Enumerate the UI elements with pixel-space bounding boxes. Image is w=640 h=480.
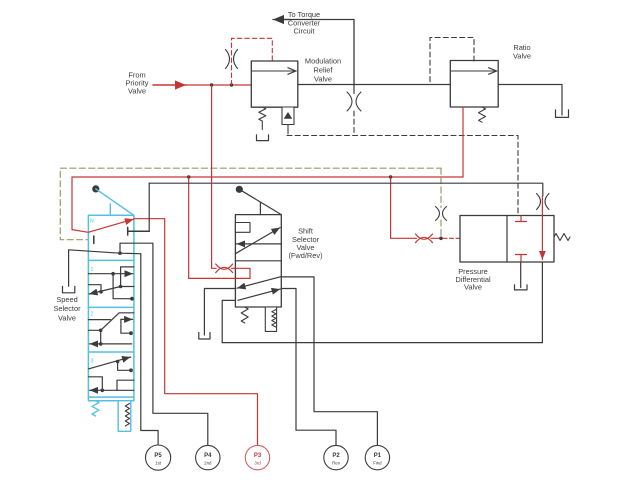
wire: clutch signal line (y=183) — [149, 183, 543, 196]
label: Shift Selector Valve (Fwd/Rev) — [288, 227, 322, 261]
svg-text:Valve: Valve — [128, 87, 146, 96]
wire: to torque converter circuit — [273, 20, 354, 86]
spring: speed valve damper coil (black) — [125, 404, 129, 427]
node: section 1 S-link junction — [119, 285, 123, 289]
node: junction of olive pilot and red feed — [439, 237, 443, 241]
wire: red distribution header (y=177) — [72, 176, 463, 178]
wire: clutch return header (y=343.5) — [222, 342, 542, 344]
check valve: modulation relief valve — [282, 107, 294, 125]
svg-text:Selector: Selector — [53, 304, 81, 313]
section 1 supply arrow — [88, 273, 133, 275]
svg-text:Relief: Relief — [314, 65, 334, 74]
svg-text:3rd: 3rd — [254, 461, 261, 466]
svg-text:P3: P3 — [254, 453, 262, 459]
red pilot loop inside shift valve — [189, 268, 250, 278]
node: supply branch to modulation pilot (x=231.5) — [230, 83, 233, 86]
svg-text:Valve: Valve — [314, 74, 332, 83]
orifice on olive pilot line — [436, 207, 447, 221]
section 2 supply line — [88, 319, 110, 321]
speed selector valve damper box (cyan) — [118, 401, 131, 432]
wire: tank line through section N — [69, 250, 141, 286]
spring: modulation relief valve — [259, 107, 266, 130]
wire: ratio valve outlet to tank — [498, 85, 562, 116]
svg-text:Rev: Rev — [332, 461, 341, 466]
pressure tap P3 (3rd, red) — [245, 445, 269, 469]
valve U2: ratio valve body — [450, 61, 498, 108]
shift valve lower section arrow to outlet — [238, 289, 280, 300]
pressure tap P1 (Fwd) — [365, 445, 389, 469]
svg-text:2: 2 — [91, 312, 94, 318]
node: section 3 hook junction — [101, 389, 105, 393]
tank: ratio valve drain — [556, 110, 569, 118]
wire: branch to P4 (2nd) — [120, 243, 208, 445]
section 2 drop link — [100, 330, 102, 344]
wire: olive dashed pilot network — [60, 168, 441, 240]
svg-text:3: 3 — [91, 359, 94, 365]
pressure tap P4 (2nd) — [196, 445, 220, 469]
tank: modulation relief valve drain — [257, 135, 269, 141]
wire: red branch down to shift valve lower pilot — [188, 177, 190, 278]
wire: shift valve lower left port loop — [222, 300, 235, 342]
valve U3: shift selector valve body — [235, 215, 281, 307]
shift selector valve damper box — [265, 307, 276, 331]
node: section 2 drop junction — [99, 342, 103, 346]
svg-text:Valve: Valve — [513, 51, 531, 60]
spring: shift valve damper coil — [272, 310, 276, 328]
wire: red dashed pilot loop to modulation relief valve top — [232, 38, 273, 85]
section 3 left hook — [88, 377, 102, 391]
section 3 right hook — [117, 380, 134, 390]
svg-text:Modulation: Modulation — [305, 56, 341, 65]
modulation relief valve internal flow arrow — [252, 70, 296, 72]
node: supply branch to shift selector (x=212) — [210, 83, 213, 86]
wire: red supply from priority valve — [153, 84, 251, 86]
wire: ratio valve pilot (black dashed) — [430, 38, 474, 85]
wire: shift valve left port to tank — [204, 289, 235, 336]
shift selector valve detent block — [235, 223, 250, 233]
label: Pressure Differential Valve — [455, 267, 491, 292]
section labels N 1 2 3 — [90, 219, 94, 365]
orifice on modulation pilot line — [226, 50, 238, 69]
svg-text:Fwd: Fwd — [373, 461, 382, 466]
wire: red output to P3 (3rd) — [134, 219, 258, 446]
tank: pressure differential valve drain — [515, 285, 528, 290]
section 3 crossover arrow (diagonal) — [88, 357, 130, 369]
node: section 2 diagonal junction — [99, 329, 103, 333]
wire: pressure differential valve bottom to header — [541, 262, 543, 343]
spring: ratio valve — [479, 107, 486, 122]
wire: check valve drain stub — [287, 125, 289, 135]
shift valve upper section return arrow — [237, 243, 282, 245]
node: section N junction — [118, 251, 122, 255]
svg-text:1: 1 — [91, 267, 94, 273]
svg-text:(Fwd/Rev): (Fwd/Rev) — [288, 251, 322, 260]
svg-text:1st: 1st — [155, 461, 162, 466]
wire: red metered flow into pressure differential valve — [541, 196, 543, 216]
section 2 crossover diagonal — [101, 313, 134, 331]
wire: red supply branch to shift selector valve (x=212) — [212, 85, 216, 268]
valve U5: speed selector valve body (cyan) — [88, 215, 133, 400]
svg-text:2nd: 2nd — [204, 461, 212, 466]
speed selector valve manual lever (cyan) — [96, 189, 134, 215]
tank: shift selector valve drain — [199, 333, 210, 340]
pressure differential valve lower pilot seat (red T) — [516, 255, 527, 263]
svg-text:P4: P4 — [204, 453, 212, 459]
node: section 3 diagonal tap — [116, 360, 120, 364]
node: section 1 diagonal tap — [99, 290, 103, 294]
svg-text:P2: P2 — [332, 453, 340, 459]
svg-text:P1: P1 — [374, 453, 382, 459]
speed selector valve section dividers — [88, 260, 133, 397]
ratio valve internal flow arrow — [451, 70, 497, 72]
red metered flow arrow inside pressure differential valve — [541, 216, 543, 260]
shift selector valve manual lever knob — [236, 186, 243, 193]
section 1 S-link — [121, 267, 134, 287]
orifice (red cross) on shift valve supply — [216, 264, 233, 273]
label: From Priority Valve — [126, 70, 149, 95]
section 2 return arrow — [90, 343, 132, 345]
section 1 left hook — [88, 285, 101, 292]
pressure tap P5 (1st) — [146, 445, 171, 470]
pressure tap P2 (Rev) — [324, 445, 348, 469]
speed selector valve manual lever knob — [92, 185, 99, 192]
port: section N blocked pilot port (left) — [93, 236, 95, 244]
section 3 return arrow — [90, 389, 134, 391]
svg-text:Valve: Valve — [464, 283, 482, 292]
wire: black dashed drain line (check valve to pressure differential pilot) — [287, 111, 518, 216]
wire: red dashed stub into pressure differential valve — [443, 237, 459, 239]
tank: speed selector valve drain — [63, 286, 75, 293]
pressure differential valve upper pilot seat (red T) — [516, 216, 527, 222]
shift selector valve section divider — [235, 260, 281, 262]
spring: shift selector valve — [241, 307, 248, 323]
port: section N blocked port (right) — [128, 227, 150, 235]
svg-text:Valve: Valve — [58, 313, 76, 322]
section 2 left feed — [88, 329, 100, 331]
wire: shift valve outlet to P2 (Rev) — [281, 289, 336, 446]
wire: section N signal riser to clutch line — [148, 183, 150, 231]
orifice above pressure differential valve — [537, 194, 550, 210]
wire: red branch to pressure differential valve inlet — [391, 177, 417, 238]
shift valve lower section arrow to tank — [237, 277, 281, 289]
svg-text:Circuit: Circuit — [294, 27, 315, 36]
section 1 port link with end dot — [113, 274, 131, 299]
label: Modulation Relief Valve — [305, 56, 341, 83]
wire: branch to P5 (1st) — [141, 254, 158, 446]
wire: red selected-speed feed arrow into section N — [72, 177, 134, 232]
orifice (red cross) on pressure differential feed — [416, 234, 433, 243]
label: Speed Selector Valve — [53, 295, 81, 322]
svg-text:P5: P5 — [154, 453, 162, 459]
section 1 return arrow (diagonal) — [89, 287, 121, 295]
shift valve upper section crossover arrow — [235, 228, 280, 254]
wire: red ratio valve bottom pressure line — [462, 107, 464, 177]
valve U1: modulation relief valve body — [251, 61, 297, 107]
valve U4: pressure differential valve body — [460, 216, 554, 263]
orifice on converter branch line — [353, 85, 355, 94]
label: Ratio Valve — [513, 43, 531, 61]
svg-text:Speed: Speed — [56, 295, 77, 304]
spring: speed selector valve (cyan) — [92, 401, 99, 416]
node: header branch to shift valve pilot — [187, 175, 190, 178]
label: To Torque Converter Circuit — [288, 10, 321, 35]
section 2 outlet arrow hook — [121, 319, 133, 333]
pressure differential valve divider — [506, 216, 508, 263]
wire: modulation relief valve output line — [298, 84, 451, 86]
wire: pressure differential valve drain — [520, 262, 522, 288]
shift selector valve manual lever — [239, 189, 281, 214]
section 3 port link with end dot — [118, 362, 130, 371]
node: section 1 arrow tap — [111, 272, 115, 276]
spring: pressure differential valve — [554, 234, 570, 241]
node: header branch to pressure differential valve — [389, 175, 392, 178]
wire: shift valve outlet to P1 (Fwd) — [281, 277, 377, 445]
svg-text:N: N — [90, 219, 94, 225]
